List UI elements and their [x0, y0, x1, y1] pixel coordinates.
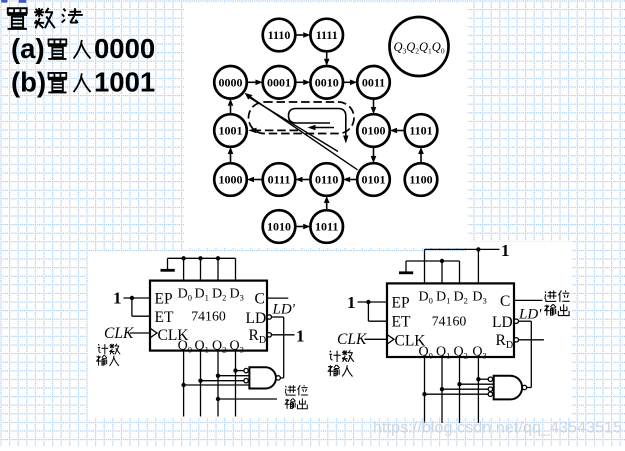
transition arrow 1101-0100	[390, 128, 405, 134]
svg-text:LD': LD'	[518, 307, 542, 323]
wire Q2 to G2 input 2	[460, 383, 494, 385]
transition arrow 1011-0110	[324, 196, 330, 210]
decorative corner marks	[1, 0, 7, 3]
junction carry	[216, 397, 220, 401]
transition arrow 1100-1101	[418, 147, 424, 163]
U1 top preset wire	[168, 257, 236, 259]
junction Q3 tap	[233, 368, 237, 372]
transition arrow 0000-0001	[247, 80, 263, 86]
pin bubble RD	[267, 333, 271, 337]
wire Q0 vertical	[183, 351, 185, 417]
junction Q2 tap	[216, 374, 220, 378]
transition arrow 0110-0111	[295, 177, 310, 183]
svg-text:1: 1	[501, 241, 510, 260]
IC U2 74160 body	[387, 283, 514, 357]
G2 input bubble 3	[488, 387, 492, 391]
state node 0011	[357, 66, 390, 99]
state node 1100	[405, 163, 438, 196]
transition arrow 0010-0011	[343, 80, 357, 86]
state node 0000	[214, 66, 247, 99]
NAND gate G1	[249, 367, 276, 388]
svg-text:LD: LD	[492, 314, 513, 331]
transition arrow 1001-0000	[228, 99, 234, 115]
svg-text:ET: ET	[155, 309, 174, 326]
junction D0	[181, 256, 185, 260]
wire Q3 vertical	[235, 351, 237, 417]
svg-text:0111: 0111	[268, 173, 291, 187]
transition arrow 0100-0101	[371, 147, 377, 163]
svg-text:LD': LD'	[272, 302, 296, 318]
wire to ET	[132, 298, 150, 316]
state node 0100	[357, 114, 390, 147]
clock wedge U2	[387, 335, 394, 345]
wire Q2 vertical	[217, 351, 219, 417]
wire D3 vertical	[477, 249, 479, 283]
state-diagram panel	[184, 3, 468, 248]
svg-text:0000: 0000	[94, 33, 155, 64]
svg-text:C: C	[255, 291, 265, 308]
wire D0 vertical	[424, 249, 426, 283]
label 输入 left	[96, 355, 119, 366]
junction Q0 tap U2	[422, 392, 426, 396]
title 置数法	[7, 8, 82, 29]
state node 1010	[263, 210, 296, 243]
wire G1 output	[280, 377, 283, 379]
G1 output bubble	[276, 376, 280, 380]
svg-text:ET: ET	[392, 314, 411, 331]
wire LD to gate output	[272, 317, 284, 378]
svg-text:1: 1	[113, 289, 122, 308]
wire Q1 to G2 input 3	[442, 388, 488, 390]
wire D2 vertical	[217, 258, 219, 280]
junction Q1 tap	[198, 379, 202, 383]
svg-text:EP: EP	[392, 295, 410, 312]
svg-text:0000: 0000	[219, 76, 243, 90]
label 计数 left	[98, 344, 120, 355]
svg-text:1: 1	[296, 327, 305, 346]
junction Q0 tap	[181, 383, 185, 387]
label 输入 right	[328, 365, 353, 377]
junction Q3 tap U2	[476, 377, 480, 381]
state node 0111	[263, 163, 296, 196]
state node 0010	[310, 66, 343, 99]
svg-text:C: C	[500, 293, 510, 310]
solid loop left arrow	[308, 125, 335, 130]
svg-text:1101: 1101	[409, 124, 432, 138]
junction D3 top	[476, 247, 480, 251]
junction D1	[198, 256, 202, 260]
wire Q0 to G1 input 4	[184, 384, 250, 386]
junction D1 gnd	[440, 259, 444, 263]
line (b)置入1001	[11, 67, 155, 98]
label 进位 right	[545, 290, 570, 302]
wire Q0 to G2 input 4	[425, 393, 489, 395]
G2 output bubble	[522, 385, 526, 389]
state node 1000	[214, 163, 247, 196]
junction EP branch	[130, 296, 134, 300]
svg-text:0001: 0001	[267, 76, 291, 90]
svg-text:(a): (a)	[11, 33, 45, 64]
transition arrow 0001-0010	[295, 80, 310, 86]
svg-text:1: 1	[347, 293, 356, 312]
wire D1 vertical	[441, 261, 443, 283]
svg-text:0011: 0011	[362, 76, 385, 90]
label 输出 right	[544, 304, 569, 315]
junction EP branch U2	[366, 300, 370, 304]
svg-text:0100: 0100	[362, 124, 386, 138]
G1 input bubble 1	[244, 368, 248, 372]
state node 0110	[310, 163, 343, 196]
pin bubble LD	[267, 315, 271, 319]
wire Q3 to G2 input 1	[478, 378, 488, 380]
label 输出 left	[285, 398, 308, 408]
ground U2	[399, 261, 413, 273]
svg-text:(b): (b)	[11, 67, 46, 98]
wire D2 vertical	[459, 261, 461, 283]
label 进位 left	[285, 385, 308, 396]
transition arrow 1110-1111	[295, 32, 310, 38]
svg-text:0101: 0101	[362, 173, 386, 187]
svg-text:74160: 74160	[432, 314, 467, 329]
wire CLK U2	[365, 338, 388, 340]
wire Q3 vertical U2	[477, 357, 479, 423]
svg-text:CLK: CLK	[337, 331, 367, 348]
transition arrow 0011-0100	[371, 99, 377, 115]
svg-text:EP: EP	[155, 291, 173, 308]
wire to ET U2	[368, 302, 387, 321]
wire Q1 vertical U2	[441, 357, 443, 423]
label 计数 right	[329, 350, 353, 362]
svg-text:1010: 1010	[267, 220, 291, 234]
wire C carry out	[514, 299, 542, 301]
wire RD stub U2	[519, 339, 544, 341]
ground U1	[161, 258, 175, 270]
svg-text:https://blog.csdn.net/qq_43543: https://blog.csdn.net/qq_43543515	[373, 420, 622, 437]
svg-text:1111: 1111	[316, 28, 338, 42]
wire Q0 vertical U2	[424, 357, 426, 423]
clock wedge U1	[150, 328, 157, 338]
svg-text:LD: LD	[246, 310, 267, 327]
state node 1101	[405, 114, 438, 147]
transition arrow 0111-1000	[247, 177, 263, 183]
wire RD to 1	[272, 334, 295, 336]
state node 0001	[263, 66, 296, 99]
wire Q2 to G1 input 2	[218, 375, 249, 377]
G2 input bubble 4	[488, 392, 492, 396]
state node 1111	[310, 19, 343, 52]
solid load path (a) loop	[289, 109, 339, 124]
state node 1110	[263, 19, 296, 52]
svg-text:1001: 1001	[94, 67, 155, 98]
diagonal load arrow 0101 to 0000	[245, 93, 358, 170]
pin bubble RD U2	[514, 338, 518, 342]
transition arrow 1000-1001	[228, 147, 234, 163]
svg-text:1011: 1011	[315, 220, 338, 234]
transition arrow 0101-0110	[343, 177, 357, 183]
circuits panel	[88, 242, 572, 419]
solid loop down arrow	[338, 109, 349, 144]
svg-text:CLK: CLK	[104, 325, 134, 342]
wire D1 vertical	[200, 258, 202, 280]
svg-text:0110: 0110	[315, 173, 338, 187]
svg-text:1110: 1110	[268, 28, 291, 42]
svg-text:1000: 1000	[219, 173, 243, 187]
dashed arrow into 1001	[248, 128, 298, 134]
wire Q1 vertical	[200, 351, 202, 417]
junction Q1 tap U2	[440, 387, 444, 391]
wire 1 to EP U2	[358, 301, 388, 303]
junction D2	[216, 256, 220, 260]
IC U1 74160 body	[150, 281, 267, 351]
state node 0101	[357, 163, 390, 196]
wire 1 to EP	[124, 297, 151, 299]
G2 input bubble 1	[488, 377, 492, 381]
svg-text:74160: 74160	[191, 309, 226, 324]
svg-text:0010: 0010	[315, 76, 339, 90]
big circle Q3Q2Q1Q0	[390, 17, 449, 76]
carry output line left	[218, 398, 277, 400]
dashed load path (b) loop	[249, 102, 355, 134]
transition arrow 1010-1011	[295, 224, 310, 230]
wire D3 vertical	[235, 258, 237, 280]
wire Q3 to G1 input 1	[236, 370, 244, 372]
wire C output stub	[267, 297, 288, 299]
line (a)置入0000	[11, 33, 155, 64]
NAND gate G2	[494, 376, 522, 400]
wire CLK	[130, 332, 150, 334]
node 1 (D0/D3 high) wire	[425, 248, 500, 250]
state node 1001	[214, 114, 247, 147]
svg-text:Q3Q2Q1Q0: Q3Q2Q1Q0	[393, 40, 444, 56]
state node 1011	[310, 210, 343, 243]
junction Q2 tap U2	[457, 382, 461, 386]
transition arrow 1111-0010	[324, 51, 330, 66]
svg-text:1100: 1100	[409, 173, 432, 187]
wire G2 output	[527, 387, 532, 389]
G1 input bubble 3	[244, 379, 248, 383]
wire Q2 vertical U2	[459, 357, 461, 423]
svg-text:1001: 1001	[219, 124, 243, 138]
pin bubble LD U2	[514, 319, 518, 323]
wire Q1 to G1 input 3	[201, 380, 244, 382]
wire D0 vertical	[183, 258, 185, 280]
ground wire U2	[406, 260, 460, 262]
wire LD to gate output U2	[519, 321, 532, 387]
